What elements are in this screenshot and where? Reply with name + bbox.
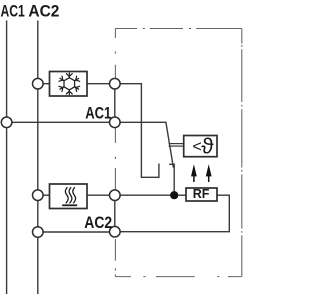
svg-text:AC1: AC1 <box>1 2 25 20</box>
svg-text:ϑ: ϑ <box>201 134 214 159</box>
svg-text:AC2: AC2 <box>28 2 59 20</box>
svg-text:AC2: AC2 <box>84 214 112 232</box>
svg-text:AC1: AC1 <box>85 105 111 123</box>
svg-text:RF: RF <box>193 187 210 201</box>
